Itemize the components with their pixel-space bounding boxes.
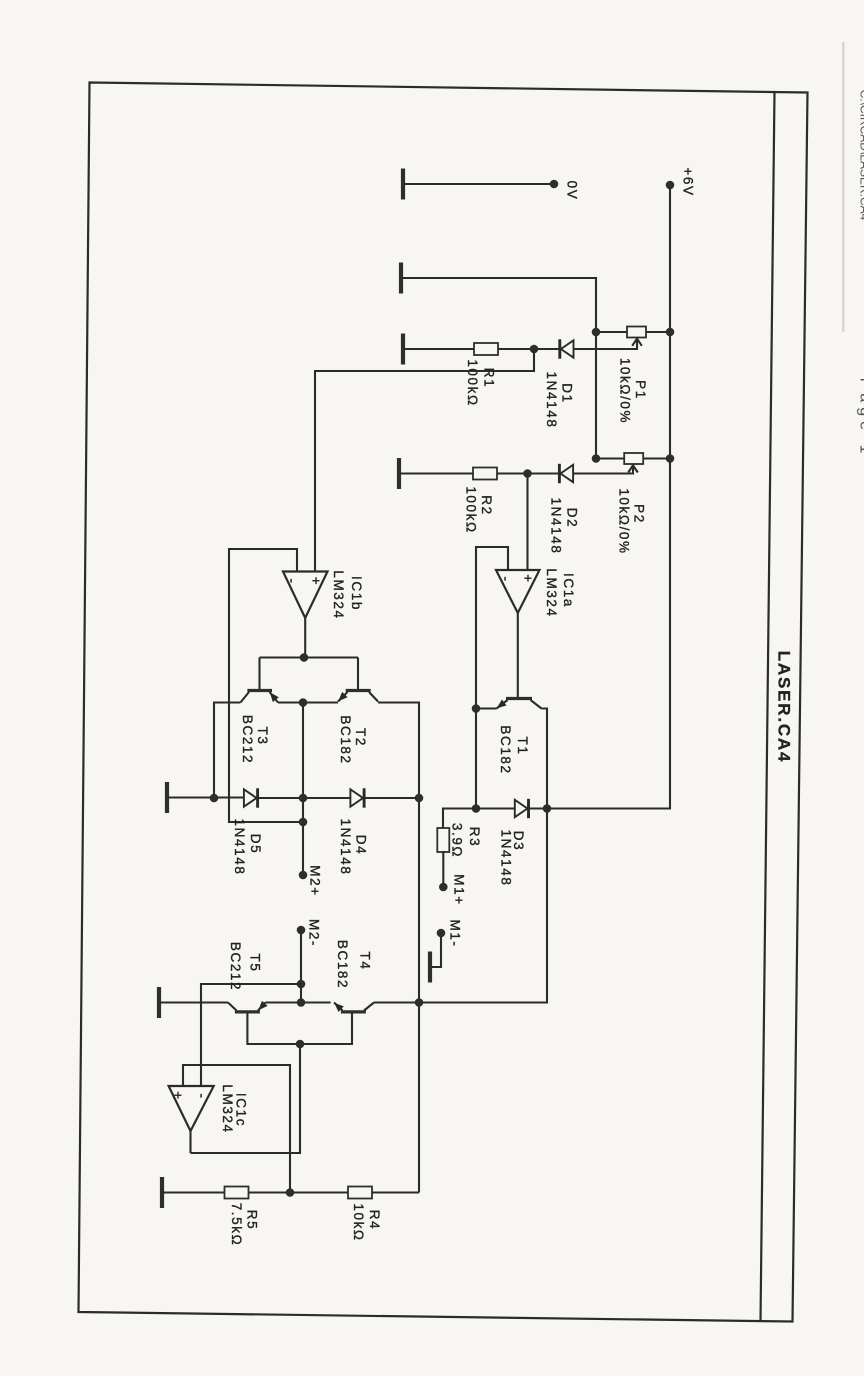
wire IC1b - feedback xyxy=(229,549,303,822)
svg-text:M2-: M2- xyxy=(307,919,322,947)
wire T1 emitter to node xyxy=(476,707,497,709)
op-amp IC1c xyxy=(169,1086,214,1131)
svg-text:BC212: BC212 xyxy=(228,942,243,991)
wire ground to 0V node xyxy=(403,183,554,185)
potentiometer P1 xyxy=(627,327,646,338)
svg-text:D2: D2 xyxy=(565,508,580,528)
wire T2 collector to +6V rail xyxy=(378,703,419,1193)
node D4 rail dot xyxy=(415,794,424,803)
wire T1 collector to +6V node xyxy=(542,709,548,809)
border title strip line xyxy=(761,92,775,1321)
svg-text:+: + xyxy=(309,577,324,586)
wire D3 anode xyxy=(476,807,515,809)
border frame outer xyxy=(79,83,808,1322)
svg-text:BC182: BC182 xyxy=(335,940,350,989)
svg-text:P2: P2 xyxy=(632,504,647,524)
svg-text:T5: T5 xyxy=(248,954,263,973)
wire D4 to +6V rail xyxy=(364,797,419,799)
transistor T5 (PNP BC212) xyxy=(228,1001,268,1012)
diode D1 xyxy=(560,339,574,358)
node +6V dot xyxy=(666,181,675,190)
svg-text:-: - xyxy=(195,1093,210,1099)
svg-text:-: - xyxy=(285,578,300,584)
node T3 collector dot xyxy=(210,794,219,803)
wire IC1c + input to divider xyxy=(183,1065,290,1193)
ground (M1-) xyxy=(429,952,431,983)
wire R3 bottom to M1+ xyxy=(442,851,444,887)
wire P1 left-right rail segment xyxy=(596,331,670,333)
ground (R1 row) xyxy=(402,334,404,365)
svg-text:T1: T1 xyxy=(515,737,530,756)
node T1 emitter dot xyxy=(472,704,481,713)
P2 wiper arrow xyxy=(632,465,634,474)
wire IC1c output xyxy=(189,1131,191,1153)
node feedback tap dot xyxy=(299,818,308,827)
svg-text:+: + xyxy=(521,574,536,583)
diode D5 xyxy=(244,788,258,807)
wire P2 left-right segments xyxy=(596,457,670,459)
wire base rail T3-T2 xyxy=(260,658,359,691)
svg-text:LM324: LM324 xyxy=(544,568,559,617)
node M1- terminal dot xyxy=(437,929,446,938)
transistor T3 (PNP BC212) xyxy=(240,691,278,703)
node T5/T4 emitter junction dot xyxy=(297,998,306,1007)
wire T3 collector to ground row xyxy=(214,703,240,799)
svg-text:T3: T3 xyxy=(255,727,270,746)
node P1 right dot xyxy=(666,328,675,337)
wire ground to T5 collector xyxy=(159,1001,228,1003)
svg-text:100kΩ: 100kΩ xyxy=(465,359,480,406)
wire IC1a output to T1 base xyxy=(517,613,519,697)
svg-text:10kΩ/0%: 10kΩ/0% xyxy=(618,358,633,424)
svg-text:R4: R4 xyxy=(367,1210,382,1230)
wire R2 junction to IC1a + input xyxy=(526,474,528,571)
wire T1 emitter node down to D3 row xyxy=(475,709,477,809)
svg-text:7.5kΩ: 7.5kΩ xyxy=(229,1203,244,1247)
ground (D5 row) xyxy=(166,782,168,813)
svg-text:10kΩ/0%: 10kΩ/0% xyxy=(617,488,632,554)
wire T5 emitter to M2- node xyxy=(266,1001,331,1003)
svg-text:+6V: +6V xyxy=(681,167,696,196)
svg-text:M2+: M2+ xyxy=(308,865,323,896)
svg-text:R2: R2 xyxy=(479,495,494,515)
svg-text:1N4148: 1N4148 xyxy=(499,830,514,887)
node M2- terminal dot xyxy=(297,926,306,935)
op-amp IC1a xyxy=(496,570,540,613)
wire T3 emitter / T2 emitter junction xyxy=(278,701,338,703)
diode D2 xyxy=(559,464,573,483)
resistor R2 xyxy=(473,468,497,480)
wire M1- to ground xyxy=(431,933,441,967)
ground (R5 row) xyxy=(161,1177,163,1208)
node IC1b output dot xyxy=(300,653,309,662)
ground (0V row) xyxy=(402,169,404,200)
wire ground to R2 xyxy=(399,472,474,474)
node R1-D1 dot xyxy=(530,345,539,354)
wire P1 left to P2 left xyxy=(595,332,597,459)
wire ground to D5 xyxy=(167,796,244,798)
wire +6V drop to T4 row xyxy=(374,809,547,1003)
svg-text:0V: 0V xyxy=(565,181,580,201)
resistor R5 xyxy=(225,1187,249,1199)
svg-text:1N4148: 1N4148 xyxy=(232,819,247,876)
svg-text:+: + xyxy=(171,1091,186,1100)
wire D3 cathode to +6V node xyxy=(529,807,548,809)
wire T5/T4 base stubs and rail xyxy=(247,1012,352,1044)
svg-text:T4: T4 xyxy=(358,952,373,971)
wire emitter junction down to M2+ xyxy=(302,703,304,876)
wire R4 to +6V rail xyxy=(372,1191,419,1193)
svg-text:M1-: M1- xyxy=(448,919,463,947)
svg-text:1N4148: 1N4148 xyxy=(338,819,353,876)
node M2+ rail dot xyxy=(299,794,308,803)
wire R1 to junction xyxy=(498,348,560,350)
ground (T5 row) xyxy=(158,987,160,1018)
op-amp IC1b xyxy=(283,572,328,619)
node D3 anode dot xyxy=(472,804,481,813)
resistor R1 xyxy=(474,343,498,355)
node P1 left dot xyxy=(592,328,601,337)
wire IC1a - feedback xyxy=(476,547,508,709)
wire D1 to P1 wiper xyxy=(574,348,637,350)
node divider dot xyxy=(286,1188,295,1197)
wire R2 to junction xyxy=(497,472,559,474)
svg-text:D5: D5 xyxy=(248,834,263,854)
node M1+ terminal dot xyxy=(439,883,448,892)
node R2-D2 dot xyxy=(523,469,532,478)
wire ground to R1 xyxy=(403,348,475,350)
ground (P1 row) xyxy=(400,263,402,294)
wire M2- down to T4/T5 row xyxy=(300,930,302,1003)
node base rail dot xyxy=(296,1040,305,1049)
svg-text:D4: D4 xyxy=(354,835,369,855)
node T4 collector rail dot xyxy=(415,998,424,1007)
wire base rail down to output row xyxy=(191,1044,301,1153)
ground (R2 row) xyxy=(398,458,400,489)
svg-text:C:\CIRCAD\LASER.CA4: C:\CIRCAD\LASER.CA4 xyxy=(858,90,864,221)
wire R3 top xyxy=(443,809,476,830)
svg-text:LM324: LM324 xyxy=(220,1084,235,1133)
svg-text:R3: R3 xyxy=(467,827,482,847)
svg-text:-: - xyxy=(499,576,514,582)
svg-text:1N4148: 1N4148 xyxy=(549,498,564,555)
wire IC1b output to base rail xyxy=(304,618,306,658)
diode D4 xyxy=(350,788,364,807)
wire R1 junction to IC1b + input xyxy=(315,349,534,572)
transistor T2 (NPN BC182) xyxy=(338,691,378,702)
wire +6V rail xyxy=(547,185,670,809)
svg-text:IC1b: IC1b xyxy=(349,576,364,611)
svg-text:P1: P1 xyxy=(633,380,648,400)
node M2- feedback tap dot xyxy=(297,980,306,989)
svg-text:M1+: M1+ xyxy=(452,874,467,905)
P1 wiper arrow xyxy=(636,339,638,350)
wire D2 to P2 wiper xyxy=(573,472,633,474)
svg-text:10kΩ: 10kΩ xyxy=(351,1203,366,1241)
node P2 right dot xyxy=(666,454,675,463)
node D3 cathode +6V dot xyxy=(543,804,552,813)
potentiometer P2 xyxy=(624,453,643,464)
wire R5 to divider node xyxy=(249,1191,349,1193)
diode D3 xyxy=(515,799,529,818)
svg-text:LM324: LM324 xyxy=(331,570,346,619)
svg-text:3.9Ω: 3.9Ω xyxy=(450,823,465,858)
svg-text:1N4148: 1N4148 xyxy=(544,372,559,429)
resistor R4 xyxy=(348,1187,372,1199)
svg-text:IC1a: IC1a xyxy=(561,573,576,608)
node emitter junction dot xyxy=(299,698,308,707)
node 0V dot xyxy=(550,180,559,189)
resistor R3 (vertical) xyxy=(437,828,449,852)
wire ground to R5 xyxy=(162,1191,225,1193)
wire ground to P1 left xyxy=(401,278,596,332)
transistor T4 (NPN BC182) xyxy=(334,1003,374,1013)
node M2+ terminal dot xyxy=(299,871,308,880)
svg-text:BC212: BC212 xyxy=(240,715,255,764)
svg-text:Page 1: Page 1 xyxy=(857,378,864,459)
svg-text:BC182: BC182 xyxy=(498,725,513,774)
wire D5 to M2+ node xyxy=(258,797,351,799)
svg-text:T2: T2 xyxy=(353,728,368,747)
svg-text:R5: R5 xyxy=(245,1210,260,1230)
transistor T1 (NPN BC182) xyxy=(497,699,542,709)
svg-text:100kΩ: 100kΩ xyxy=(464,486,479,533)
node P2 left dot xyxy=(592,454,601,463)
svg-text:D1: D1 xyxy=(560,383,575,403)
svg-text:LASER.CA4: LASER.CA4 xyxy=(775,651,794,764)
wire M2- feedback to IC1c - input xyxy=(201,984,301,1086)
svg-text:BC182: BC182 xyxy=(338,715,353,764)
scan artifact streak xyxy=(842,42,845,332)
